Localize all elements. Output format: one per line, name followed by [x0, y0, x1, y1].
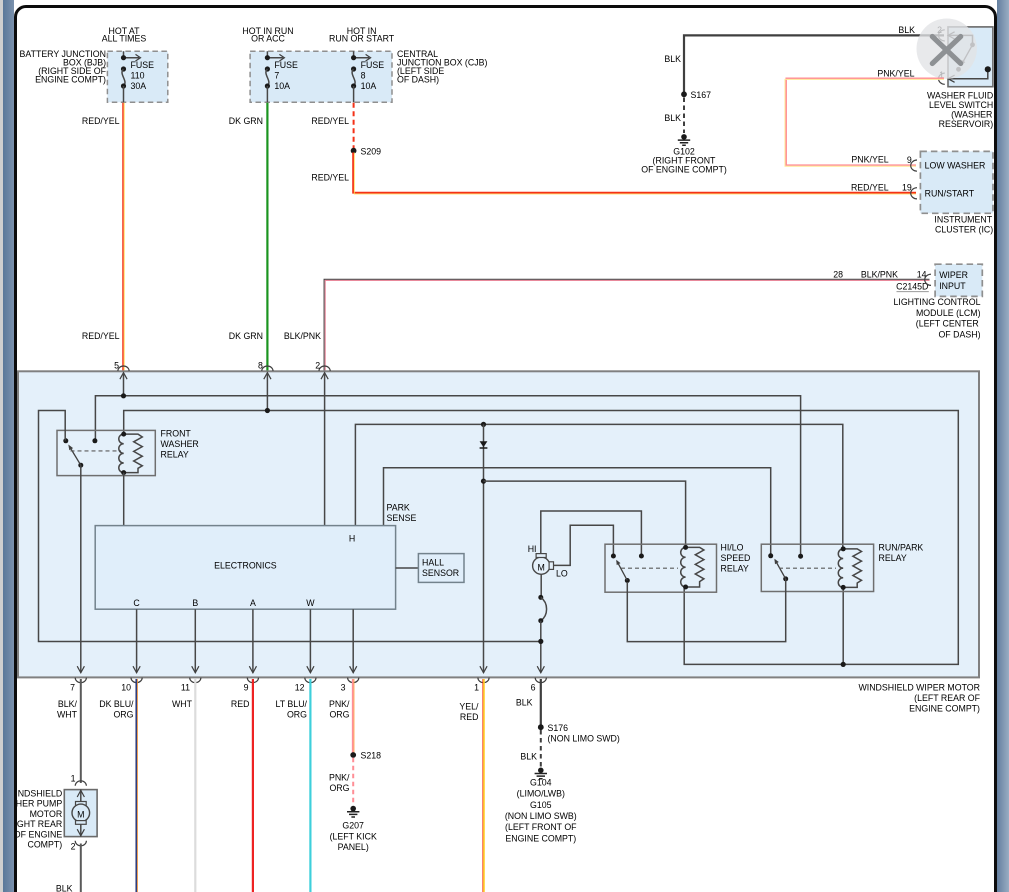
- wire: electronics H output: [355, 422, 842, 549]
- wire: relay arms link: [627, 579, 785, 642]
- bottom pin 11: [181, 666, 201, 692]
- wire WHT pin 11: [172, 679, 195, 892]
- wire: diode branch to pin 1: [481, 424, 486, 672]
- bottom pin 6: [531, 666, 547, 692]
- fuse 110 30A: [121, 51, 154, 102]
- cursor X overlay: [917, 19, 977, 79]
- connector C2145D: [896, 282, 929, 292]
- ground G102: [641, 134, 727, 174]
- windshield wiper motor box: [18, 371, 981, 713]
- splice S209: [351, 146, 381, 156]
- splice S176: [538, 723, 620, 744]
- wire RED/YEL dashed from fuse8 to S209: [311, 103, 353, 148]
- hi/lo speed relay: [605, 542, 750, 592]
- electronics module: [95, 526, 395, 610]
- wire BLK dashed to G104/G105: [520, 730, 540, 767]
- pin 5: [114, 361, 129, 380]
- wire RED/YEL from S209 to instrument cluster pin 19: [311, 153, 916, 195]
- lighting control module LCM wiper input: [894, 264, 983, 339]
- splice S167: [681, 90, 711, 100]
- bottom pin 3: [341, 666, 359, 692]
- bottom pin 7: [70, 666, 86, 692]
- wire PNK/ORG pin 3 to S218: [329, 679, 354, 753]
- bottom pin 1: [474, 666, 489, 692]
- washer fluid level switch: [927, 25, 993, 129]
- window frame: left blue strip: [3, 0, 14, 892]
- fuse 7 10A: [265, 51, 298, 102]
- ground G207: [330, 806, 377, 852]
- run/park relay: [761, 542, 923, 591]
- wire BLK below pump: [56, 844, 81, 892]
- bottom pin 9: [244, 666, 259, 692]
- window frame: right blue strip: [997, 0, 1009, 892]
- bottom pin 12: [295, 666, 316, 692]
- wire: washer relay switch common ground path: [39, 411, 541, 642]
- fuse 8 10A: [351, 51, 384, 102]
- wire: internal bus from pin 8 (DK GRN net): [124, 374, 959, 667]
- wiper motor M with HI/LO: [528, 511, 642, 578]
- bottom pin 10: [121, 666, 142, 692]
- diode: [480, 441, 488, 448]
- splice S218: [350, 751, 381, 761]
- wire: electronics park sense: [384, 468, 771, 556]
- wire: washer relay output to pin 7: [80, 465, 82, 672]
- wire PNK/ORG dashed to G207: [329, 758, 353, 805]
- wire: motor ground with thermal loop to pin 6: [538, 574, 546, 672]
- wire PNK/YEL from switch pin 1 to instrument cluster pin 9: [785, 69, 944, 167]
- instrument cluster IC: [911, 151, 994, 234]
- wire: branch to hi/lo relay coil: [484, 481, 686, 547]
- wire: washer relay coil to electronics: [123, 473, 125, 526]
- central junction box CJB: [242, 26, 487, 103]
- wire DK BLU/ORG pin 10: [99, 679, 137, 892]
- hall sensor: [396, 554, 464, 583]
- wire: pin 2 to electronics: [324, 374, 326, 526]
- wire BLK/PNK from pin 2 to LCM pin 14: [284, 269, 930, 370]
- ground G104 G105: [505, 768, 577, 844]
- pin 2: [315, 361, 330, 380]
- front washer relay: [57, 428, 199, 475]
- wire BLK dashed from S167 to G102: [664, 98, 684, 134]
- wire BLK pin 6 to S176: [516, 679, 541, 725]
- wire: electronics C B A W and pin3 outputs: [137, 609, 354, 672]
- pin 8: [258, 361, 273, 380]
- wire BLK from S167 to washer fluid level switch pin 2: [664, 25, 944, 94]
- wire DK GRN from fuse7 to pin 8: [229, 103, 268, 371]
- wire YEL/RED pin 1: [459, 679, 484, 892]
- window frame: left gray strip: [0, 0, 3, 892]
- wire LT BLU/ORG pin 12: [276, 679, 311, 892]
- wire BLK/WHT pin 7 to washer pump: [57, 679, 81, 783]
- wire RED pin 9: [231, 679, 253, 892]
- wire RED/YEL from fuse110 to pin 5: [82, 103, 124, 371]
- wire: internal bus from pin 5: [95, 374, 800, 556]
- washer pump motor: [0, 774, 97, 852]
- battery junction box BJB: [19, 26, 167, 103]
